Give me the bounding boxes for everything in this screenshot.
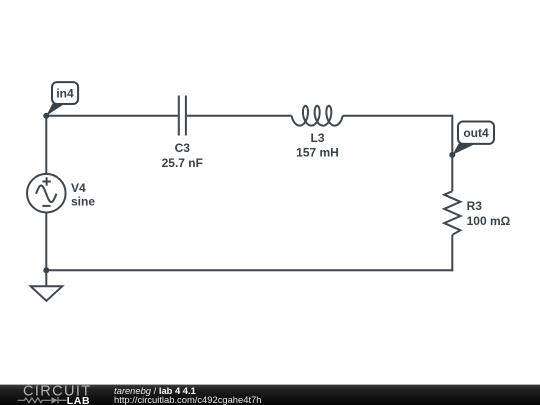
svg-text:C3: C3 (175, 141, 191, 155)
svg-text:sine: sine (71, 194, 95, 208)
svg-text:out4: out4 (463, 126, 489, 140)
wire: V4 bottom to ground node (45, 213, 47, 271)
svg-text:in4: in4 (56, 86, 74, 100)
svg-text:V4: V4 (71, 181, 86, 195)
net label in4 (46, 82, 78, 116)
node in4 junction dot (43, 113, 49, 119)
inductor L3 (292, 106, 343, 126)
svg-text:http://circuitlab.com/c492cgah: http://circuitlab.com/c492cgahe4t7h (114, 394, 261, 405)
wire: C3 right plate to L3 (187, 115, 292, 117)
wire: out4 node to R3 top (451, 155, 453, 191)
wire: top-right corner down to out4 node (451, 115, 453, 155)
svg-text:LAB: LAB (67, 395, 90, 405)
svg-text:100 mΩ: 100 mΩ (467, 214, 511, 228)
svg-text:R3: R3 (467, 199, 483, 213)
svg-text:157 mH: 157 mH (296, 146, 339, 160)
footer logo resistor-diode squiggle (18, 397, 67, 404)
wire: R3 bottom to bottom-right corner (451, 235, 453, 271)
net label out4 (452, 122, 494, 155)
wire: in4 node down to V4 top (45, 116, 47, 175)
capacitor C3 (179, 96, 186, 136)
ground node junction dot (43, 267, 49, 273)
svg-text:L3: L3 (310, 131, 324, 145)
wire top-left: in4 node to C3 left plate (46, 115, 178, 117)
ground (31, 270, 63, 301)
voltage source V4 (27, 174, 66, 213)
resistor R3 (444, 191, 460, 235)
footer bar (0, 385, 540, 405)
node out4 junction dot (449, 152, 455, 158)
wire: L3 to top-right corner (343, 115, 453, 117)
wire bottom: bottom-right corner to ground node (46, 269, 453, 271)
svg-text:25.7 nF: 25.7 nF (162, 156, 203, 170)
